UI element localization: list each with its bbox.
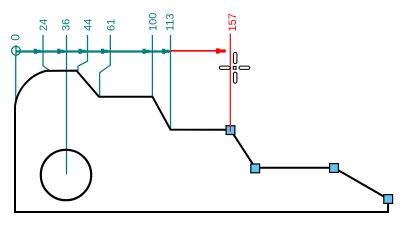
dimension 61: extension line with jog [100,35,111,96]
cursor crosshair: left lobe [219,66,230,69]
svg-text:113: 113 [165,13,177,31]
cursor pickbox [233,66,236,69]
svg-text:44: 44 [83,19,95,31]
arrow 24 [34,49,41,54]
arrow 44 [79,49,86,54]
cursor crosshair: top lobe [219,52,250,83]
dimension 24: extension line with jog [43,35,49,71]
arrow 113 [162,49,169,54]
svg-text:0: 0 [8,34,22,41]
profile outline [15,71,388,212]
grip G1 at vertex 157 [226,126,235,135]
extension line 0 [15,56,17,105]
svg-text:157: 157 [227,13,239,31]
cursor crosshair: bottom lobe [233,72,237,83]
origin symbol [12,45,21,57]
svg-text:61: 61 [105,19,117,31]
arrow 157 (red) [216,48,225,53]
svg-text:100: 100 [147,13,159,31]
svg-text:24: 24 [38,19,50,31]
dimension baseline (teal) [16,50,171,52]
dimension 157 in progress: red baseline [171,50,227,52]
grip G4 [384,195,393,204]
arrow 61 [101,49,108,54]
grip G3 [330,164,339,173]
arrow 36 [57,49,64,54]
dimension 44: extension line with jog [78,35,88,71]
dimension 100: extension line [151,35,153,97]
cursor crosshair: right lobe [239,66,250,69]
grip G2 [251,164,260,173]
dimension 36: extension line to circle centre [66,35,68,175]
extension line 157 (red) [229,34,231,132]
hole circle [41,150,91,200]
arrow 100 [143,49,150,54]
svg-text:36: 36 [61,19,73,31]
dimension 113: extension line [170,35,172,129]
